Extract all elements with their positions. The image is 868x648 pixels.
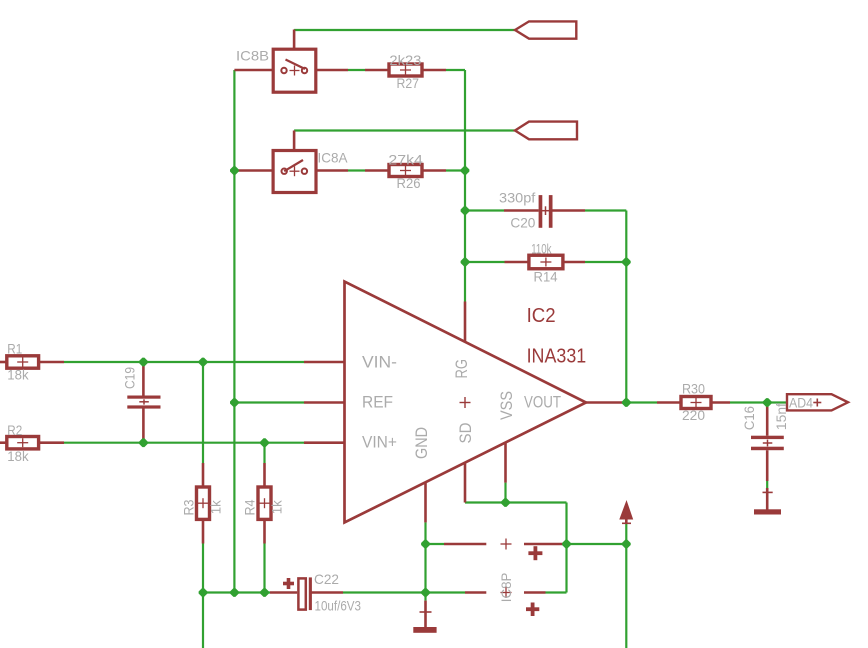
wire bbox=[348, 69, 365, 71]
resistor R14 bbox=[505, 255, 586, 269]
label IC8P bbox=[498, 573, 514, 603]
svg-text:C19: C19 bbox=[121, 367, 137, 389]
svg-text:IC8A: IC8A bbox=[318, 149, 349, 165]
svg-text:C20: C20 bbox=[510, 214, 535, 230]
resistor R1 bbox=[0, 356, 64, 368]
label R3 bbox=[180, 499, 196, 515]
junction bbox=[421, 540, 430, 549]
svg-text:AD4: AD4 bbox=[789, 394, 813, 410]
wire bbox=[64, 442, 304, 444]
wire bbox=[585, 211, 626, 403]
svg-text:1k: 1k bbox=[269, 499, 285, 514]
junction bbox=[461, 206, 470, 215]
junction bbox=[230, 588, 239, 597]
pin name VOUT bbox=[524, 393, 561, 412]
wire bbox=[567, 543, 627, 545]
ground symbol 2 bbox=[754, 488, 781, 515]
junction bbox=[260, 438, 269, 447]
value 2k23 of R27 bbox=[389, 52, 421, 68]
svg-text:VIN+: VIN+ bbox=[362, 433, 397, 452]
resistor R30 bbox=[657, 397, 730, 409]
wire bbox=[263, 544, 265, 593]
value 15nf of C16 bbox=[773, 403, 789, 430]
wire bbox=[622, 401, 657, 403]
svg-text:27k4: 27k4 bbox=[388, 152, 423, 168]
junction bbox=[501, 498, 510, 507]
value 110k of R14 bbox=[531, 241, 552, 257]
svg-text:VSS: VSS bbox=[497, 391, 516, 420]
label R1 bbox=[7, 340, 22, 356]
pin name VIN- bbox=[362, 352, 397, 371]
wire bbox=[294, 29, 515, 31]
junction bbox=[421, 588, 430, 597]
svg-text:IC8B: IC8B bbox=[236, 48, 269, 64]
junction bbox=[199, 588, 208, 597]
wire bbox=[203, 591, 270, 593]
svg-text:330pf: 330pf bbox=[499, 190, 535, 206]
label C16 bbox=[741, 406, 757, 430]
label R2 bbox=[7, 422, 22, 438]
wire bbox=[730, 401, 787, 403]
power pins IC8P bbox=[444, 539, 567, 617]
junction bbox=[622, 540, 631, 549]
label flag AD4 bbox=[787, 394, 848, 410]
pin name RG bbox=[452, 359, 471, 379]
wire bbox=[294, 129, 515, 131]
capacitor C16 bbox=[751, 403, 784, 482]
ground symbol 1 bbox=[413, 601, 436, 633]
wire bbox=[546, 591, 567, 593]
wire bbox=[465, 209, 504, 211]
net name AD4 bbox=[789, 394, 813, 410]
wire bbox=[446, 169, 465, 171]
junction bbox=[622, 258, 631, 267]
wire bbox=[202, 362, 204, 463]
resistor R27 bbox=[365, 64, 446, 76]
label R30 bbox=[682, 380, 705, 396]
wire bbox=[202, 544, 204, 648]
wire bbox=[64, 361, 304, 363]
supply VCC arrow bbox=[620, 502, 633, 524]
value 27k4 of R26 bbox=[388, 152, 423, 168]
wire bbox=[233, 70, 235, 593]
wire bbox=[234, 401, 304, 403]
svg-text:VIN-: VIN- bbox=[362, 352, 397, 371]
wire bbox=[504, 483, 506, 503]
pin name VSS bbox=[497, 391, 516, 420]
svg-text:15nf: 15nf bbox=[773, 403, 789, 430]
svg-text:220: 220 bbox=[682, 407, 705, 423]
capacitor C20 bbox=[504, 195, 585, 228]
capacitor C22 bbox=[270, 577, 343, 610]
label flag net 2 bbox=[515, 122, 577, 140]
value 18k of R2 bbox=[7, 448, 29, 464]
svg-text:R1: R1 bbox=[7, 340, 22, 356]
svg-text:R3: R3 bbox=[180, 499, 196, 515]
label IC8B bbox=[236, 48, 269, 64]
label R4 bbox=[241, 499, 257, 515]
svg-text:2k23: 2k23 bbox=[389, 52, 421, 68]
resistor R3 bbox=[197, 463, 210, 544]
wire bbox=[766, 481, 768, 488]
capacitor C19 bbox=[127, 362, 160, 443]
label R26 bbox=[397, 175, 421, 191]
wire bbox=[263, 443, 265, 463]
pin name VIN+ bbox=[362, 433, 397, 452]
svg-text:VOUT: VOUT bbox=[524, 393, 561, 412]
value 18k of R1 bbox=[7, 366, 29, 382]
svg-text:RG: RG bbox=[452, 359, 471, 379]
value INA331 of IC2 bbox=[527, 346, 587, 368]
svg-text:R14: R14 bbox=[534, 269, 558, 285]
resistor R26 bbox=[365, 165, 446, 177]
wire bbox=[426, 543, 445, 545]
svg-text:18k: 18k bbox=[7, 448, 29, 464]
value 1k of R4 bbox=[269, 499, 285, 514]
svg-text:C22: C22 bbox=[314, 571, 339, 587]
svg-text:IC2: IC2 bbox=[527, 305, 556, 327]
value 330pf of C20 bbox=[499, 190, 535, 206]
svg-text:R26: R26 bbox=[397, 175, 421, 191]
junction bbox=[260, 588, 269, 597]
label R27 bbox=[397, 75, 420, 91]
junction bbox=[461, 166, 470, 175]
junction bbox=[763, 398, 772, 407]
junction bbox=[139, 358, 148, 367]
junction bbox=[230, 398, 239, 407]
svg-text:R30: R30 bbox=[682, 380, 705, 396]
pin name GND bbox=[412, 427, 431, 459]
junction bbox=[562, 540, 571, 549]
svg-text:IC8P: IC8P bbox=[498, 573, 514, 603]
wire bbox=[465, 501, 567, 503]
label IC2 bbox=[527, 305, 556, 327]
wire bbox=[348, 169, 365, 171]
label flag net 1 bbox=[515, 21, 576, 38]
label R14 bbox=[534, 269, 558, 285]
label C20 bbox=[510, 214, 535, 230]
svg-text:R27: R27 bbox=[397, 75, 420, 91]
svg-text:18k: 18k bbox=[7, 366, 29, 382]
svg-text:INA331: INA331 bbox=[527, 346, 587, 368]
wire bbox=[343, 591, 465, 593]
label IC8A bbox=[318, 149, 349, 165]
label C19 bbox=[121, 367, 137, 389]
wire bbox=[465, 261, 505, 263]
analog switch IC8A bbox=[234, 131, 348, 193]
svg-text:110k: 110k bbox=[531, 241, 552, 257]
junction bbox=[461, 258, 470, 267]
junction bbox=[230, 166, 239, 175]
analog switch IC8B bbox=[234, 30, 348, 93]
svg-text:1k: 1k bbox=[208, 499, 224, 514]
resistor R2 bbox=[0, 437, 64, 449]
svg-text:C16: C16 bbox=[741, 406, 757, 430]
value 1k of R3 bbox=[208, 499, 224, 514]
svg-text:REF: REF bbox=[362, 393, 393, 412]
junction bbox=[139, 438, 148, 447]
svg-text:R2: R2 bbox=[7, 422, 22, 438]
svg-text:10uf/6V3: 10uf/6V3 bbox=[315, 598, 362, 614]
pin name REF bbox=[362, 393, 393, 412]
pin name SD bbox=[456, 423, 475, 444]
resistor R4 bbox=[258, 463, 271, 544]
wire bbox=[585, 261, 626, 263]
wire bbox=[424, 522, 426, 600]
svg-text:SD: SD bbox=[456, 423, 475, 444]
op-amp IC2 INA331 bbox=[304, 282, 622, 523]
svg-text:GND: GND bbox=[412, 427, 431, 459]
value 220 of R30 bbox=[682, 407, 705, 423]
wire bbox=[565, 503, 567, 593]
svg-text:R4: R4 bbox=[241, 499, 257, 515]
junction bbox=[199, 358, 208, 367]
wire bbox=[446, 70, 465, 302]
value 10uf/6V3 of C22 bbox=[315, 598, 362, 614]
wire bbox=[625, 524, 627, 648]
label C22 bbox=[314, 571, 339, 587]
junction bbox=[622, 398, 631, 407]
